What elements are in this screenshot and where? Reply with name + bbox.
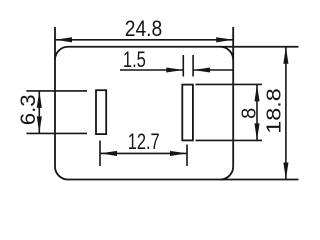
relay body bottom-left corner arc (55, 167, 68, 180)
dim 6.3 dimension line (38, 91, 40, 133)
relay body top-left corner arc (55, 47, 68, 60)
dim 1.5 left dimension line (120, 69, 183, 71)
right pin slot (182, 85, 193, 141)
relay body top edge (continues right as 18.8 extension) (68, 46, 299, 48)
relay body bottom-right corner arc (220, 167, 233, 180)
dim 1.5 right dimension line (193, 69, 233, 71)
dim 1.5 left-pointing arrowhead (193, 67, 210, 72)
relay body bottom edge (continues right as 18.8 extension) (68, 179, 299, 181)
dim 8 up arrowhead (254, 84, 259, 101)
dim 24.8 dimension line (55, 39, 233, 41)
svg-text:1.5: 1.5 (123, 47, 146, 72)
dim 6.3 top extension line (26, 90, 87, 92)
left pin slot (96, 90, 106, 134)
dim 8 down arrowhead (254, 123, 259, 140)
dim 8 top extension line (196, 83, 263, 85)
dim 8 bottom extension line (196, 139, 263, 141)
dim 12.7 left arrowhead (100, 151, 117, 156)
dim 6.3 down arrowhead (37, 116, 42, 133)
dim 8 dimension line (256, 84, 258, 140)
relay body top-right corner arc (220, 47, 233, 60)
dim 18.8 dimension line (285, 47, 287, 180)
relay body left edge (continues up as 24.8 extension) (54, 27, 56, 167)
svg-text:24.8: 24.8 (125, 16, 163, 41)
dim 6.3 up arrowhead (37, 91, 42, 108)
svg-text:18.8: 18.8 (262, 88, 285, 134)
dim 12.7 left extension tick (99, 141, 101, 167)
svg-text:6.3: 6.3 (16, 94, 40, 125)
dim 6.3 bottom extension line (26, 132, 87, 134)
relay body right edge (continues up as 24.8 extension) (232, 27, 234, 167)
dim 1.5 left extension tick (182, 55, 184, 77)
dim 1.5 right-pointing arrowhead (166, 67, 183, 72)
dim 12.7 dimension line (100, 152, 187, 154)
dim 1.5 right extension tick (192, 55, 194, 77)
dim 24.8 left arrowhead (55, 37, 72, 42)
dim 12.7 right extension tick (186, 145, 188, 167)
svg-text:8: 8 (239, 108, 261, 119)
dim 12.7 right arrowhead (170, 151, 187, 156)
dim 24.8 right arrowhead (216, 37, 233, 42)
dim 18.8 down arrowhead (283, 163, 288, 180)
dim 18.8 up arrowhead (283, 47, 288, 64)
svg-text:12.7: 12.7 (128, 129, 160, 154)
